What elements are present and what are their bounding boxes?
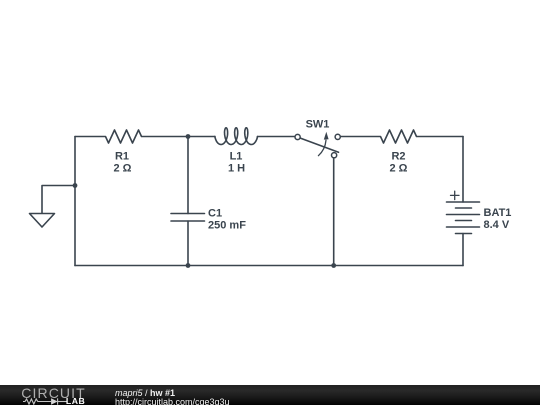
svg-text:2 Ω: 2 Ω (390, 163, 408, 175)
svg-text:R1: R1 (115, 151, 129, 163)
svg-text:SW1: SW1 (306, 118, 330, 130)
svg-text:L1: L1 (230, 151, 243, 163)
svg-text:250 mF: 250 mF (208, 220, 246, 232)
svg-text:8.4 V: 8.4 V (484, 219, 510, 231)
svg-text:2 Ω: 2 Ω (114, 163, 132, 175)
svg-text:LAB: LAB (66, 395, 85, 405)
svg-text:1 H: 1 H (228, 163, 245, 175)
svg-text:C1: C1 (208, 208, 222, 220)
svg-text:BAT1: BAT1 (484, 207, 512, 219)
svg-text:R2: R2 (391, 151, 405, 163)
